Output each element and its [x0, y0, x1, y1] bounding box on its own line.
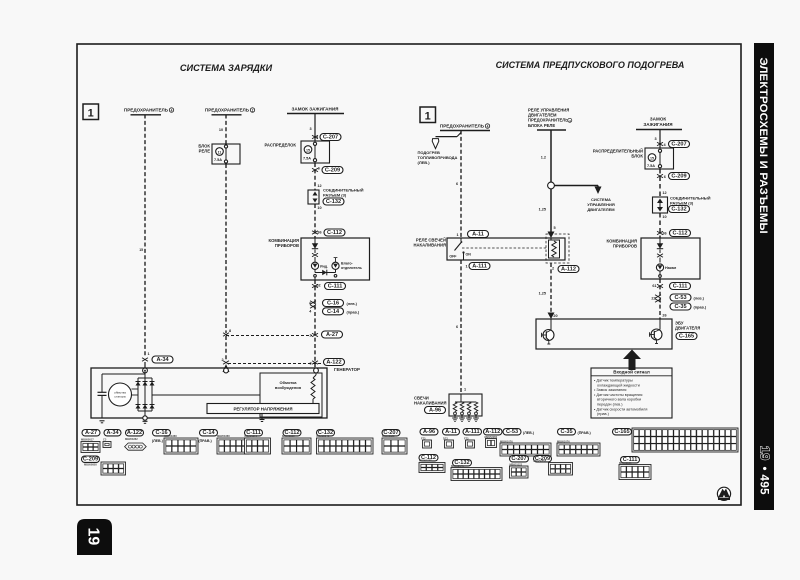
svg-text:10: 10	[662, 215, 666, 219]
generator bottom terminal and grounds	[144, 411, 146, 418]
svg-text:2: 2	[552, 267, 554, 271]
svg-text:MB950858: MB950858	[534, 459, 547, 463]
dashed branch wire to A-27	[226, 335, 312, 337]
svg-text:(прав.): (прав.)	[694, 306, 707, 310]
svg-text:возбуждения: возбуждения	[275, 385, 302, 390]
svg-text:БЛОКА РЕЛЕ: БЛОКА РЕЛЕ	[528, 123, 555, 128]
svg-text:СИСТЕМА ЗАРЯДКИ: СИСТЕМА ЗАРЯДКИ	[180, 63, 273, 73]
capacitor in generator	[101, 374, 103, 392]
svg-text:(ПРАВ.): (ПРАВ.)	[198, 439, 212, 443]
charge indicator lamp Инд.	[311, 262, 318, 269]
svg-text:(ЛЕВ.): (ЛЕВ.)	[418, 160, 431, 165]
svg-text:C-209: C-209	[325, 168, 340, 174]
svg-text:19: 19	[85, 528, 102, 546]
diagram number box 1 (left)	[83, 104, 99, 120]
svg-text:C-207: C-207	[671, 142, 686, 148]
rectifier bridge diodes	[137, 378, 139, 411]
svg-text:ДВИГАТЕЛЯ: ДВИГАТЕЛЯ	[675, 326, 700, 331]
svg-text:ON: ON	[466, 253, 472, 257]
svg-text:1: 1	[465, 265, 467, 269]
relay coil	[546, 234, 569, 263]
ECU transistor right	[651, 329, 662, 340]
wire: C-209 down to joint connector (right)	[659, 169, 661, 197]
svg-text:C-209: C-209	[671, 174, 686, 180]
svg-text:C-132: C-132	[671, 207, 686, 213]
svg-text:1: 1	[147, 352, 149, 356]
svg-text:A-122: A-122	[127, 430, 142, 436]
svg-text:A-11: A-11	[445, 429, 457, 435]
pinout drawing C-207 (right)	[510, 466, 529, 478]
svg-text:C-209: C-209	[83, 457, 98, 463]
svg-text:статора: статора	[114, 395, 125, 399]
svg-text:2: 2	[221, 358, 223, 362]
svg-text:A-122: A-122	[326, 360, 341, 366]
wire: C-209 down to joint connector	[314, 163, 316, 190]
pinout oval C-16	[153, 430, 171, 436]
pinout oval C-132	[317, 430, 335, 436]
pinout oval C-132 (right row2)	[453, 460, 472, 466]
svg-text:3: 3	[309, 362, 311, 366]
wire: relay block down to junction 8	[225, 164, 227, 333]
wire: joint connector down to cluster (right)	[659, 213, 661, 238]
svg-text:10: 10	[219, 128, 223, 132]
svg-text:передач (лев.): передач (лев.)	[597, 403, 623, 407]
svg-text:A-111: A-111	[472, 264, 487, 270]
pinout drawing C-132 (right)	[451, 468, 502, 481]
wire: fuse down to glow plug relay	[460, 131, 462, 239]
svg-text:(ПРАВ.): (ПРАВ.)	[578, 431, 592, 435]
svg-text:12: 12	[662, 191, 666, 195]
wire: ignition down to C-207	[314, 114, 316, 142]
pinout oval A-34	[104, 430, 121, 436]
svg-text:C-165: C-165	[679, 334, 694, 340]
svg-text:19: 19	[758, 446, 772, 461]
wire: cluster down to generator L terminal	[314, 280, 316, 368]
svg-text:C-14: C-14	[202, 430, 215, 436]
input signal list box Входной сигнал	[591, 368, 672, 418]
pinout oval A-122	[126, 430, 144, 436]
svg-text:MB955017: MB955017	[81, 438, 94, 442]
wire: relay coil down to ECU	[550, 263, 552, 313]
wire: fuse-4 down to A-34 / generator	[144, 115, 146, 358]
pinout oval C-209	[82, 456, 100, 462]
wire: relay switch down to glow plugs	[460, 260, 462, 394]
svg-text:(лев.): (лев.)	[694, 297, 705, 301]
svg-text:C-207: C-207	[511, 456, 526, 462]
pinout oval A-11	[443, 429, 460, 435]
svg-text:C-111: C-111	[673, 284, 688, 290]
wire: cluster down to ECU (right)	[659, 279, 661, 319]
svg-text:Инд.: Инд.	[320, 265, 328, 269]
svg-text:A-34: A-34	[106, 430, 119, 436]
diode in cluster	[314, 238, 316, 244]
diode between lamps	[314, 269, 316, 272]
wire: joint connector down to instrument cluster	[314, 204, 316, 238]
svg-text:C-112: C-112	[327, 230, 342, 236]
svg-text:ПРИБОРОВ: ПРИБОРОВ	[613, 244, 637, 249]
svg-text:C-132: C-132	[326, 199, 341, 205]
pinout oval C-112	[283, 430, 301, 436]
pinout oval C-207 (right row2)	[510, 456, 529, 462]
diagram number box 1 (right)	[420, 107, 436, 123]
svg-text:НАКАЛИВАНИЯ: НАКАЛИВАНИЯ	[413, 243, 446, 248]
svg-text:15: 15	[650, 156, 654, 160]
wire: A-34 to generator terminal	[144, 362, 146, 368]
svg-text:отделитель: отделитель	[341, 266, 363, 270]
svg-text:A-27: A-27	[326, 332, 338, 338]
wire: ignition down to C-207 (right)	[659, 130, 661, 149]
joint connector СОЕДИНИТЕЛЬНЫЙ РАЗЪЕМ (3) C-132	[308, 190, 319, 204]
connector A-34 on wire	[142, 358, 148, 362]
svg-text:Входной сигнал: Входной сигнал	[613, 369, 650, 375]
joint connector C-132 (right)	[653, 197, 668, 213]
svg-text:РАСПРЕДЕЛОК: РАСПРЕДЕЛОК	[265, 143, 297, 148]
arrow into generator terminal B	[223, 364, 230, 372]
svg-text:ЭЛЕКТРОСХЕМЫ И РАЗЪЕМЫ: ЭЛЕКТРОСХЕМЫ И РАЗЪЕМЫ	[757, 58, 769, 234]
junction circle	[548, 182, 555, 189]
glow plug elements	[455, 401, 476, 403]
svg-text:(ЛЕВ.): (ЛЕВ.)	[523, 431, 535, 435]
relay switch	[460, 238, 462, 242]
svg-text:ПРЕДОХРАНИТЕЛЬ: ПРЕДОХРАНИТЕЛЬ	[440, 124, 485, 129]
svg-text:26: 26	[662, 314, 666, 318]
svg-text:C3: C3	[103, 438, 107, 442]
svg-text:(лев.): (лев.)	[347, 302, 358, 306]
svg-text:вторичного вала коробки: вторичного вала коробки	[597, 398, 641, 402]
svg-text:MB950858: MB950858	[84, 463, 97, 467]
svg-text:61: 61	[652, 284, 656, 288]
svg-text:(прав.): (прав.)	[347, 310, 360, 314]
svg-text:ЗАМОК ЗАЖИГАНИЯ: ЗАМОК ЗАЖИГАНИЯ	[292, 107, 339, 112]
svg-text:1: 1	[425, 111, 431, 123]
wire: col2 down to generator	[225, 336, 227, 361]
pinout oval C-111	[245, 430, 263, 436]
svg-text:MB951188: MB951188	[419, 459, 432, 463]
svg-text:• Датчик температуры: • Датчик температуры	[594, 379, 633, 383]
pinout oval C-53	[503, 429, 521, 435]
svg-text:C-53: C-53	[674, 295, 686, 301]
svg-text:C-35: C-35	[674, 304, 686, 310]
svg-text:MB953282: MB953282	[125, 437, 138, 441]
generator terminal circles on top edge	[143, 368, 148, 373]
field winding coil	[311, 378, 315, 399]
svg-text:1: 1	[88, 108, 94, 120]
svg-text:6: 6	[664, 175, 666, 179]
svg-text:C-111: C-111	[328, 284, 343, 290]
diode in cluster (right)	[659, 238, 661, 244]
field winding box Обмотка возбуждения	[260, 373, 322, 417]
svg-text:C-53: C-53	[506, 429, 518, 435]
pinout oval A-112	[484, 429, 503, 435]
svg-text:A-34: A-34	[156, 357, 169, 363]
pinout oval C-35	[558, 429, 576, 435]
svg-text:• Замок зажигания: • Замок зажигания	[594, 388, 626, 392]
svg-text:C-35: C-35	[560, 429, 572, 435]
svg-text:7.5A: 7.5A	[647, 164, 655, 168]
connector C-207 (right) on wire	[657, 142, 663, 146]
pinout oval A-96	[420, 429, 438, 435]
cluster bottom pins	[314, 275, 317, 278]
svg-text:3: 3	[654, 137, 656, 141]
svg-text:A-96: A-96	[423, 429, 435, 435]
generator box ГЕНЕРАТОР	[91, 368, 327, 418]
svg-text:БЛОК: БЛОК	[631, 154, 643, 159]
svg-text:(ЛЕВ.): (ЛЕВ.)	[152, 439, 164, 443]
indicator lamp Влагоотделитель	[335, 258, 337, 263]
svg-text:3: 3	[309, 127, 311, 131]
wire: junction down to relay coil	[550, 189, 552, 232]
pinout drawing C-209 (right)	[549, 463, 573, 476]
svg-text:20: 20	[553, 314, 557, 318]
svg-text:ПРИБОРОВ: ПРИБОРОВ	[275, 243, 299, 248]
ECU box ЭБУ ДВИГАТЕЛЯ	[536, 319, 672, 349]
svg-text:РАЗЪЕМ (3): РАЗЪЕМ (3)	[670, 200, 694, 205]
svg-text:4: 4	[171, 109, 173, 113]
svg-text:РАЗЪЕМ (3): РАЗЪЕМ (3)	[323, 193, 347, 198]
svg-text:1: 1	[456, 233, 458, 237]
ECU transistor left	[543, 330, 554, 341]
svg-text:1: 1	[464, 388, 466, 392]
svg-text:НАКАЛИВАНИЯ: НАКАЛИВАНИЯ	[414, 401, 447, 406]
stator winding circle обмотка статора	[109, 383, 132, 406]
svg-text:A-111: A-111	[465, 429, 480, 435]
svg-text:10: 10	[317, 206, 321, 210]
svg-text:8: 8	[229, 329, 231, 333]
publisher logo triangle	[717, 487, 730, 500]
svg-text:охлаждающей жидкости: охлаждающей жидкости	[597, 383, 640, 387]
junction connector on wire col2	[223, 333, 229, 337]
pinout oval C-14	[200, 430, 218, 436]
svg-text:5: 5	[553, 226, 555, 230]
svg-text:7.5A: 7.5A	[214, 158, 222, 162]
svg-text:• Датчик скорости автомобиля: • Датчик скорости автомобиля	[594, 407, 647, 411]
branch to fuel line heater with hollow arrow	[457, 133, 461, 137]
svg-text:A-96: A-96	[429, 408, 441, 414]
wire: relay fuse down solid	[550, 131, 552, 183]
svg-text:СИСТЕМА ПРЕДПУСКОВОГО ПОДОГРЕВ: СИСТЕМА ПРЕДПУСКОВОГО ПОДОГРЕВА	[496, 60, 685, 70]
pinout oval A-111	[463, 429, 482, 435]
svg-text:ПРЕДОХРАНИТЕЛЬ: ПРЕДОХРАНИТЕЛЬ	[124, 108, 169, 113]
svg-text:1.25: 1.25	[539, 208, 546, 212]
dashed branch wire to A-122	[228, 363, 321, 365]
svg-text:РЕЛЕ: РЕЛЕ	[199, 149, 211, 154]
pinout drawing C-111 (right)	[619, 465, 651, 480]
pinout drawing C-209	[101, 462, 126, 475]
svg-text:ЗАЖИГАНИЯ: ЗАЖИГАНИЯ	[643, 122, 672, 127]
pinout oval A-27	[82, 430, 100, 436]
svg-text:ДВИГАТЕЛЕМ: ДВИГАТЕЛЕМ	[587, 207, 615, 212]
pinout oval C-209 (right row2)	[534, 456, 552, 462]
svg-text:ЗАМОК: ЗАМОК	[650, 117, 667, 122]
svg-text:12: 12	[317, 184, 321, 188]
pinout oval C-207	[382, 430, 400, 436]
svg-text:РЕГУЛЯТОР НАПРЯЖЕНИЯ: РЕГУЛЯТОР НАПРЯЖЕНИЯ	[233, 407, 292, 412]
connector C-35 (прав.)	[670, 303, 691, 310]
voltage regulator box РЕГУЛЯТОР НАПРЯЖЕНИЯ	[207, 404, 319, 414]
ground symbol under regulator	[261, 414, 263, 420]
svg-text:Накал: Накал	[665, 266, 677, 270]
svg-text:2: 2	[252, 109, 254, 113]
generator output wire to field winding	[152, 394, 260, 396]
svg-text:A-11: A-11	[472, 232, 484, 238]
svg-text:ПРЕДОХРАНИТЕЛЬ: ПРЕДОХРАНИТЕЛЬ	[205, 108, 250, 113]
svg-text:C-207: C-207	[323, 135, 338, 141]
svg-text:OFF: OFF	[449, 255, 457, 259]
svg-text:22: 22	[651, 297, 655, 301]
svg-text:(прав.): (прав.)	[597, 412, 610, 416]
svg-text:15: 15	[306, 148, 310, 152]
svg-text:A-27: A-27	[85, 430, 97, 436]
relay mechanical link dashed	[462, 247, 546, 249]
svg-text:2: 2	[309, 334, 311, 338]
connector C-207 on wire	[312, 135, 318, 139]
page frame border	[77, 44, 741, 505]
connector A-11 label	[468, 231, 489, 238]
regulator ground stub	[261, 414, 263, 419]
wire: fuse-2 down to relay block	[225, 115, 227, 145]
svg-text:7.5A: 7.5A	[303, 157, 311, 161]
svg-text:ГЕНЕРАТОР: ГЕНЕРАТОР	[334, 367, 360, 372]
svg-text:6: 6	[456, 325, 458, 329]
svg-text:36: 36	[662, 232, 666, 236]
svg-text:A-112: A-112	[561, 267, 576, 273]
branch line to engine control system arrow	[554, 185, 598, 187]
svg-text:1.25: 1.25	[539, 292, 546, 296]
svg-text:15: 15	[139, 248, 143, 252]
pinout drawing C-112 (right)	[419, 463, 445, 473]
svg-text:A-112: A-112	[485, 429, 500, 435]
svg-text:1.2: 1.2	[541, 156, 546, 160]
pinout oval C-112 (right row2)	[419, 455, 438, 461]
svg-text:• 495: • 495	[757, 467, 769, 496]
svg-text:• Датчик частоты вращения: • Датчик частоты вращения	[594, 393, 642, 397]
glow indicator lamp Накал	[656, 264, 663, 271]
svg-text:C-14: C-14	[327, 309, 340, 315]
pinout oval C-165	[613, 429, 632, 435]
svg-text:C-16: C-16	[327, 301, 339, 307]
svg-text:C-112: C-112	[673, 231, 688, 237]
sidebar black tab with chapter title	[754, 43, 774, 510]
svg-text:C-165: C-165	[614, 429, 629, 435]
big input-signal arrow	[623, 350, 641, 371]
svg-text:6: 6	[456, 182, 458, 186]
bottom-left chapter tab 19	[77, 519, 112, 555]
svg-text:4: 4	[487, 125, 489, 129]
glow plug grounds	[452, 417, 458, 419]
pinout oval C-111 (right row2)	[621, 457, 640, 463]
svg-text:11: 11	[218, 150, 222, 154]
